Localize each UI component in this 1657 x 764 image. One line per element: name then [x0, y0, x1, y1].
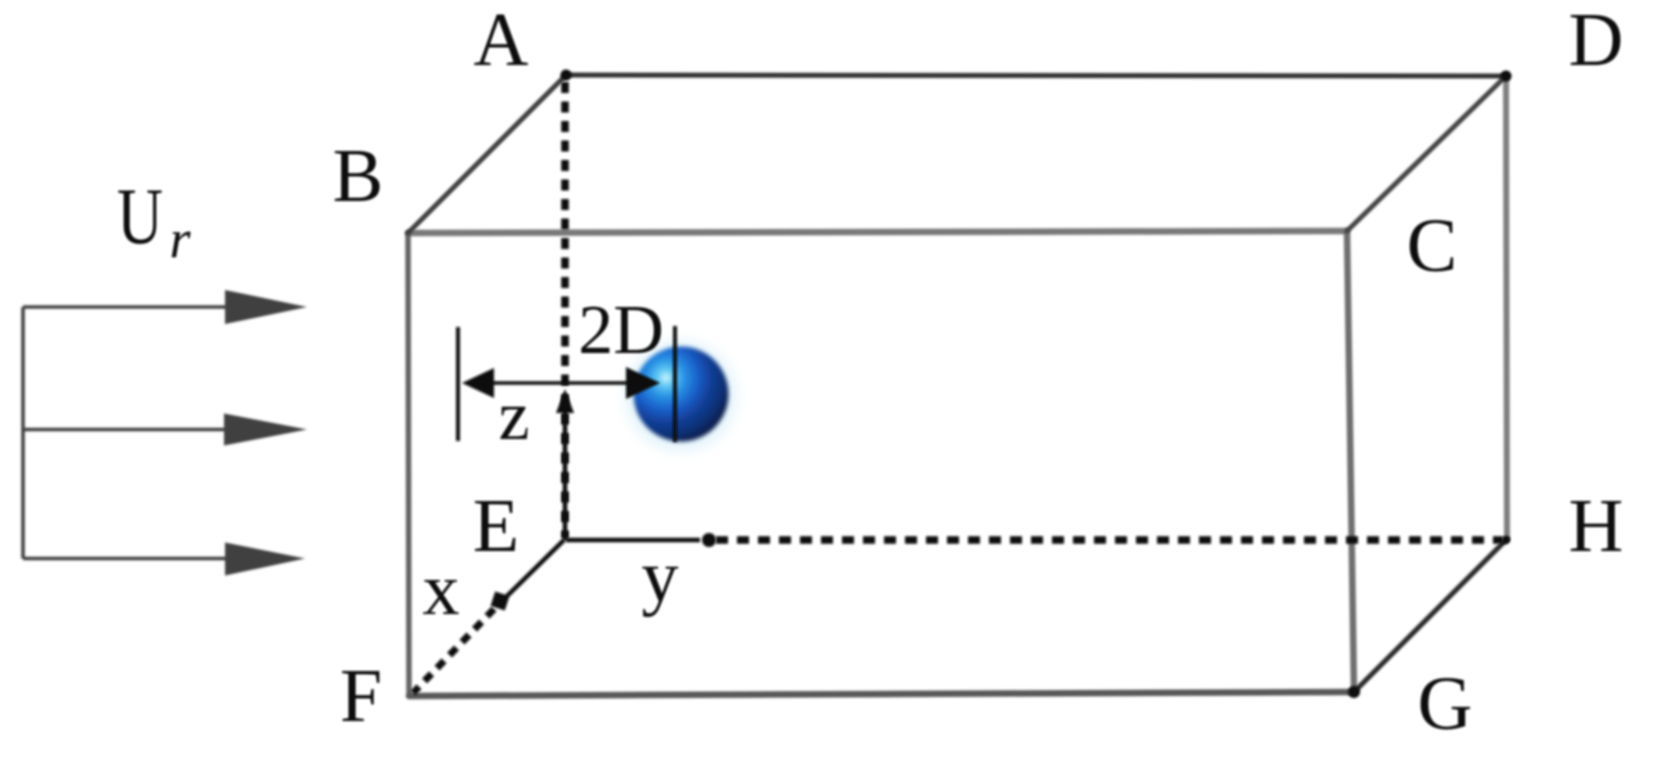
svg-text:D: D — [1569, 0, 1624, 82]
svg-text:x: x — [423, 549, 460, 631]
svg-text:z: z — [498, 378, 529, 455]
svg-text:r: r — [169, 209, 191, 269]
svg-text:U: U — [117, 173, 163, 261]
svg-text:y: y — [642, 536, 679, 618]
svg-text:E: E — [473, 484, 519, 568]
svg-text:G: G — [1418, 662, 1473, 746]
svg-text:A: A — [474, 0, 529, 82]
svg-text:C: C — [1407, 204, 1458, 288]
svg-text:H: H — [1569, 484, 1624, 568]
svg-text:B: B — [333, 134, 384, 218]
svg-text:F: F — [340, 654, 382, 738]
svg-text:2D: 2D — [578, 292, 664, 369]
